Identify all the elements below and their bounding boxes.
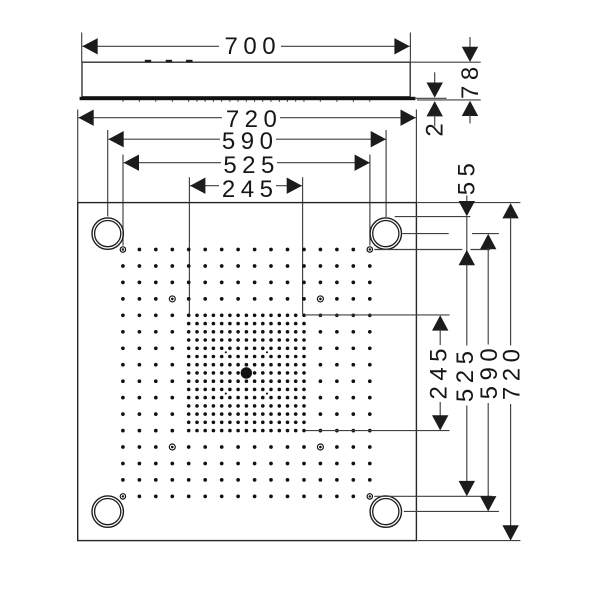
ringed nozzle col12 row12 <box>317 444 323 450</box>
dimension 590 vertical <box>476 234 503 512</box>
extension line spotlight centers top <box>402 233 448 235</box>
dimension 525 vertical (shared line with 55) <box>452 217 479 497</box>
dimension 720 (panel width) <box>78 106 417 202</box>
ringed nozzle col12 row3 <box>317 296 323 302</box>
spotlight circle top-left <box>92 218 123 249</box>
panel outline front view <box>78 203 417 541</box>
face plate (thick) of side view <box>80 97 416 100</box>
ringed nozzle col3 row12 <box>169 444 175 450</box>
svg-text:720: 720 <box>499 344 526 401</box>
ringed nozzle col3 row3 <box>169 296 175 302</box>
ringed pilot nozzle bottom-right <box>367 494 372 499</box>
spotlight circle top-right <box>370 218 401 249</box>
dimension 525 (pilot nozzle spacing horizontal) <box>123 152 370 246</box>
svg-text:245: 245 <box>425 343 452 400</box>
central large nozzle <box>241 367 252 378</box>
svg-text:700: 700 <box>225 33 282 60</box>
dimension 720 vertical <box>499 203 526 540</box>
ringed pilot nozzle bottom-left <box>120 494 125 499</box>
ringed pilot nozzle top-right <box>367 247 372 252</box>
outer nozzle dot grid <box>121 248 372 499</box>
dimension 245 (inner spray field width) <box>189 176 302 314</box>
dimension 590 (spotlight spacing horizontal) <box>108 128 386 217</box>
dimension 700 (side view width) <box>82 33 411 63</box>
extension line panel bottom edge (right) <box>417 540 520 542</box>
extension line pilot nozzle row top <box>374 249 462 251</box>
dimension 78 (housing height) <box>411 37 484 124</box>
extension line spotlight centers bottom <box>404 510 499 512</box>
mounting tabs on housing top <box>145 60 193 63</box>
ringed pilot nozzle top-left <box>120 247 125 252</box>
svg-text:55: 55 <box>454 158 481 196</box>
spotlight circle bottom-right <box>370 496 401 527</box>
inner dense nozzle dot grid <box>187 314 306 433</box>
extension line spotlight top tangent <box>395 216 471 218</box>
small diagonal nozzles around center <box>225 351 268 394</box>
svg-text:2: 2 <box>421 118 448 137</box>
svg-text:245: 245 <box>222 176 279 203</box>
nozzle tick marks under face plate <box>122 100 370 102</box>
extension line dense field top <box>306 314 450 316</box>
dimension 55 (panel edge to spotlight) <box>454 158 481 217</box>
dimension 245 vertical <box>425 315 452 430</box>
extension line panel top edge (right) <box>417 202 520 204</box>
extension line pilot nozzle row bottom <box>374 495 492 497</box>
side view housing <box>82 62 410 97</box>
svg-text:78: 78 <box>457 61 484 99</box>
extension line dense field bottom <box>306 430 450 432</box>
spotlight circle bottom-left <box>92 496 123 527</box>
svg-text:590: 590 <box>222 128 279 155</box>
dimension 2 (plate protrusion) <box>414 72 448 136</box>
